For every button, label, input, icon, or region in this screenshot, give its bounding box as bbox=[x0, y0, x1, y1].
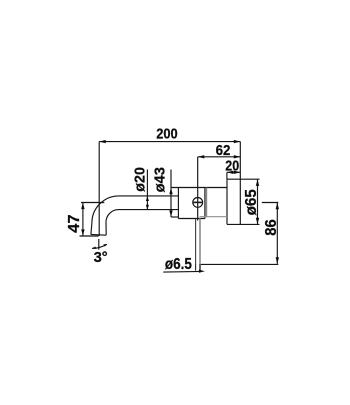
svg-text:20: 20 bbox=[225, 158, 239, 175]
svg-text:ø6.5: ø6.5 bbox=[165, 256, 192, 273]
svg-text:ø20: ø20 bbox=[131, 167, 148, 192]
svg-text:3°: 3° bbox=[94, 249, 108, 266]
svg-text:86: 86 bbox=[263, 219, 280, 236]
svg-text:ø65: ø65 bbox=[243, 189, 260, 215]
svg-text:ø43: ø43 bbox=[151, 167, 168, 192]
svg-text:47: 47 bbox=[66, 214, 83, 233]
svg-text:62: 62 bbox=[216, 142, 231, 159]
svg-text:200: 200 bbox=[156, 126, 178, 143]
